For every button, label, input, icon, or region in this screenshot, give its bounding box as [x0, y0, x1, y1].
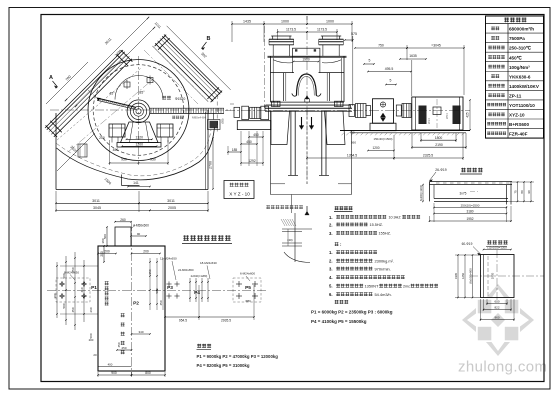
svg-text:P4 = 8200kg P5 = 31000kg: P4 = 8200kg P5 = 31000kg: [197, 363, 250, 368]
svg-text:YKK630-6: YKK630-6: [509, 74, 531, 79]
svg-text:1173.5: 1173.5: [286, 28, 296, 32]
svg-text:500: 500: [103, 234, 107, 239]
svg-text:425: 425: [466, 112, 470, 118]
svg-text:100g/Nm³: 100g/Nm³: [509, 65, 530, 70]
svg-text:B: B: [207, 36, 211, 42]
svg-text:1292: 1292: [248, 159, 256, 163]
svg-text:1905: 1905: [491, 272, 495, 279]
svg-text:750: 750: [378, 44, 384, 48]
svg-text:2.: 2.: [329, 259, 333, 264]
svg-text:954.5: 954.5: [179, 319, 187, 323]
svg-text:1200: 1200: [135, 142, 143, 146]
svg-text:1952: 1952: [466, 217, 473, 221]
svg-text:3x75: 3x75: [460, 192, 467, 196]
svg-text:2935.5: 2935.5: [221, 319, 231, 323]
svg-text:P4 = 4100kg P5 = 15500kg: P4 = 4100kg P5 = 15500kg: [311, 319, 367, 324]
svg-text:3.: 3.: [329, 266, 333, 271]
svg-text:3045: 3045: [93, 206, 101, 210]
svg-text:495.5: 495.5: [385, 67, 394, 71]
svg-text:3011: 3011: [92, 199, 100, 203]
svg-text:141: 141: [133, 181, 139, 185]
svg-text:18-M24x630: 18-M24x630: [200, 261, 217, 265]
svg-text:1.: 1.: [329, 215, 333, 220]
svg-text:20: 20: [93, 353, 97, 357]
svg-text:26-Φ19: 26-Φ19: [435, 168, 446, 172]
svg-text:500: 500: [62, 303, 66, 308]
svg-text:M90x4-6H: M90x4-6H: [192, 116, 206, 120]
svg-text:80: 80: [520, 190, 524, 194]
svg-text:450: 450: [71, 267, 75, 272]
svg-text:P5: P5: [245, 285, 251, 291]
svg-text:10.9HZ: 10.9HZ: [389, 216, 402, 220]
svg-text:300: 300: [53, 293, 57, 298]
svg-text:ZP-11: ZP-11: [509, 93, 522, 98]
svg-text:12-M24x650: 12-M24x650: [160, 257, 177, 261]
svg-text:970r/min.: 970r/min.: [375, 266, 391, 271]
svg-text:200: 200: [143, 250, 149, 254]
svg-text:5: 5: [390, 79, 392, 83]
svg-text:6.: 6.: [329, 292, 333, 297]
svg-text:250: 250: [121, 346, 126, 350]
svg-text:1200: 1200: [372, 146, 379, 150]
svg-text:500: 500: [155, 288, 159, 293]
svg-text:4-M56x600: 4-M56x600: [133, 224, 149, 228]
svg-text:P1 = 9000kg P2 = 47000kg P3: P1 = 9000kg P2 = 47000kg P3 = 12000kg: [197, 354, 279, 359]
svg-text:1800: 1800: [435, 136, 443, 140]
svg-text:1435: 1435: [243, 20, 251, 24]
svg-text:575: 575: [351, 32, 357, 36]
svg-text:Φ1520: Φ1520: [175, 97, 186, 101]
svg-text:250(10)=2500: 250(10)=2500: [461, 203, 480, 207]
svg-text:90: 90: [527, 190, 531, 194]
svg-text:5: 5: [369, 59, 371, 63]
svg-text:54.4m3/h.: 54.4m3/h.: [375, 292, 392, 297]
svg-text:6-M24x600: 6-M24x600: [240, 272, 255, 276]
svg-text:950: 950: [121, 158, 127, 162]
svg-text:6x200(=1200): 6x200(=1200): [419, 185, 423, 201]
svg-text:2190: 2190: [435, 143, 443, 147]
svg-text:410: 410: [80, 287, 84, 292]
svg-text:150x30(=1500): 150x30(=1500): [374, 137, 393, 141]
svg-text:450℃: 450℃: [509, 54, 523, 60]
svg-text:960: 960: [494, 315, 499, 319]
svg-text:P4: P4: [194, 290, 200, 296]
svg-text:1635: 1635: [409, 54, 417, 58]
svg-text:FZR-40F: FZR-40F: [509, 132, 528, 137]
svg-text:950: 950: [148, 269, 152, 274]
svg-text:2mc: 2mc: [403, 284, 410, 288]
svg-text:P2: P2: [133, 301, 139, 307]
svg-text:2300kg.m².: 2300kg.m².: [375, 259, 394, 264]
svg-text:1000: 1000: [281, 20, 289, 24]
svg-text:450: 450: [159, 300, 163, 305]
svg-text:950: 950: [150, 158, 156, 162]
svg-text:2700: 2700: [209, 161, 213, 169]
svg-text:2x640(=1280): 2x640(=1280): [191, 274, 208, 278]
svg-text:5.: 5.: [329, 284, 333, 289]
svg-text:A: A: [49, 75, 53, 81]
svg-text:1173.5: 1173.5: [317, 28, 327, 32]
svg-text:90: 90: [137, 232, 141, 236]
svg-text:680000m³/h: 680000m³/h: [509, 27, 534, 32]
svg-text:2005: 2005: [168, 206, 176, 210]
svg-text:=3045: =3045: [431, 44, 441, 48]
svg-text:YOT1100/10: YOT1100/10: [509, 103, 535, 108]
svg-text:3011: 3011: [167, 199, 175, 203]
svg-text:200: 200: [99, 136, 105, 140]
svg-text:24-M64x650: 24-M64x650: [178, 268, 194, 272]
svg-text:185: 185: [232, 148, 238, 152]
svg-text:450: 450: [71, 307, 75, 312]
svg-text:200: 200: [89, 338, 94, 342]
svg-text:200: 200: [100, 251, 104, 257]
svg-text:P1: P1: [91, 285, 97, 291]
svg-text:2325.5: 2325.5: [423, 154, 433, 158]
svg-text:(90): (90): [221, 118, 225, 123]
svg-text:2.: 2.: [329, 222, 333, 227]
svg-text:3.: 3.: [329, 231, 333, 236]
svg-text:340: 340: [138, 330, 143, 334]
svg-text:1320: 1320: [135, 135, 143, 139]
svg-text:Ø34: Ø34: [427, 118, 431, 124]
svg-text:260: 260: [89, 307, 93, 312]
svg-text:1400kW/10KV: 1400kW/10KV: [509, 84, 540, 89]
svg-text:500: 500: [62, 273, 66, 278]
svg-text:1250: 1250: [461, 273, 465, 279]
svg-text:Φ80: Φ80: [245, 299, 251, 303]
svg-text:1000: 1000: [326, 20, 334, 24]
svg-text:zhulong.com: zhulong.com: [458, 359, 547, 376]
svg-text:1350NT: 1350NT: [365, 283, 379, 288]
svg-text:400: 400: [108, 363, 113, 367]
svg-text:B+RS600: B+RS600: [509, 122, 529, 127]
svg-text:800: 800: [145, 371, 151, 375]
svg-text:380: 380: [101, 238, 105, 243]
svg-text:Ø54: Ø54: [445, 113, 449, 119]
svg-text:(12x100)=1200: (12x100)=1200: [487, 246, 507, 250]
svg-text:250-310℃: 250-310℃: [509, 45, 532, 51]
svg-text:(6x100)=600: (6x100)=600: [469, 268, 473, 284]
svg-text:1900: 1900: [302, 57, 310, 61]
svg-text:75: 75: [514, 190, 518, 194]
svg-text:X Y Z - 10: X Y Z - 10: [229, 192, 250, 197]
svg-text:60-Φ19: 60-Φ19: [462, 242, 473, 246]
svg-text:7500Pa: 7500Pa: [509, 36, 525, 41]
svg-text:15.5HZ.: 15.5HZ.: [370, 223, 384, 227]
svg-text:560: 560: [351, 141, 356, 145]
svg-text:400: 400: [349, 131, 354, 135]
svg-text:1354.5: 1354.5: [347, 154, 357, 158]
svg-text:P3: P3: [167, 285, 173, 291]
svg-text:3180: 3180: [466, 209, 473, 213]
svg-text:1905: 1905: [454, 273, 458, 279]
svg-text:450: 450: [117, 342, 121, 347]
svg-text:85°: 85°: [139, 91, 145, 95]
svg-text:900: 900: [111, 371, 117, 375]
svg-text:450: 450: [246, 140, 252, 144]
svg-text:155HZ.: 155HZ.: [379, 232, 391, 236]
svg-text:1.: 1.: [329, 250, 333, 255]
svg-text:450: 450: [253, 133, 259, 137]
svg-text:P1 = 6000kg P2 = 23500kg: P1 = 6000kg P2 = 23500kg P3 : 6000kg: [311, 310, 393, 315]
svg-text:450: 450: [113, 148, 119, 152]
svg-text:200: 200: [104, 250, 110, 254]
svg-text:600: 600: [494, 299, 499, 303]
svg-text:4.: 4.: [329, 275, 333, 280]
svg-text:45°: 45°: [109, 92, 115, 96]
svg-text:822: 822: [494, 305, 499, 309]
svg-text:260: 260: [120, 218, 126, 222]
svg-text:XYZ-10: XYZ-10: [509, 113, 525, 118]
